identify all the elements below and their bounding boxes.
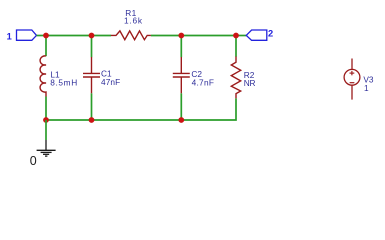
svg-text:2: 2 [268,28,273,38]
svg-text:1: 1 [7,32,12,42]
junction node C [178,33,184,39]
svg-text:8.5mH: 8.5mH [50,78,78,88]
junction node G [178,117,184,123]
wire node B down to C1 [91,36,93,58]
svg-text:4.7nF: 4.7nF [192,78,215,88]
port P2 [246,30,267,40]
junction node F [89,117,95,123]
wire port1 to node A [37,35,47,37]
wire R2 bottom to corner [181,98,236,120]
resistor R1 [111,31,151,40]
svg-text:1: 1 [364,83,369,93]
ground [37,140,56,156]
wire node C to node D [181,35,236,37]
wire node A to R1 left [46,35,111,37]
junction node E [43,117,49,123]
port P1 [17,30,37,40]
svg-text:1.6k: 1.6k [124,16,143,26]
inductor L1 [40,56,46,97]
capacitor C2 [173,57,190,93]
wire C2 bottom to node G [180,93,182,120]
wire L1 bottom to node E [45,97,47,121]
svg-text:47nF: 47nF [101,77,120,87]
bottom wire [46,119,181,121]
voltage source V3 [344,59,360,100]
wire node A down to L1 [45,36,47,57]
svg-text:0: 0 [30,154,37,168]
resistor R2 [231,57,240,99]
wire node C down to C2 [180,36,182,58]
capacitor C1 [83,57,100,93]
wire C1 bottom to node F [91,93,93,120]
junction node D [233,33,239,39]
junction node B [89,33,95,39]
wire node D to port2 [236,35,246,37]
svg-text:NR: NR [244,78,256,88]
wire node D down to R2 [235,36,237,57]
wire node E to ground [45,120,47,140]
wire R1 right to node C [151,35,181,37]
junction node A [43,33,49,39]
